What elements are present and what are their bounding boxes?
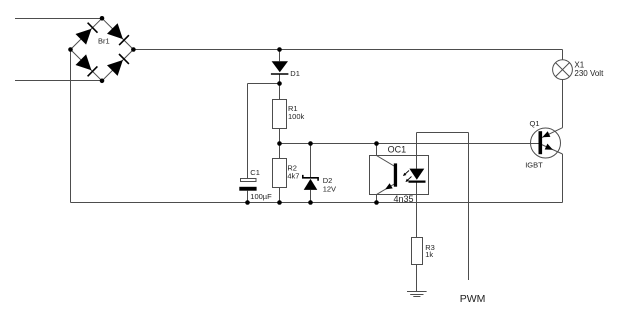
- junction dot R2 rail: [277, 200, 282, 205]
- wire OC1 emitter to rail: [376, 195, 378, 203]
- light arrow heads: [403, 173, 406, 176]
- OC1 LED cathode bar: [409, 181, 426, 183]
- Q1 emitter arrow: [545, 144, 553, 150]
- ground symbol: [407, 291, 427, 293]
- resistor R3 body: [412, 238, 423, 265]
- resistor R1 body: [273, 100, 287, 129]
- diode D1 cathode bar: [271, 73, 289, 75]
- svg-text:C1: C1: [250, 168, 260, 177]
- junction dot D1 top: [277, 47, 282, 52]
- svg-text:4n35: 4n35: [394, 194, 414, 204]
- wire AC input top: [15, 18, 102, 20]
- wire lamp drop: [562, 50, 564, 60]
- bridge diode top-right: [107, 23, 123, 39]
- wire left vertical (bridge minus to bottom rail): [70, 50, 72, 203]
- junction dot bridge right: [131, 47, 136, 52]
- junction dot C1 tee: [277, 81, 282, 86]
- Q1 emitter diagonal: [542, 145, 563, 155]
- light arrow lines: [404, 171, 409, 176]
- wire R2 top: [279, 144, 281, 159]
- svg-text:IGBT: IGBT: [525, 160, 543, 169]
- Q1 base bar: [539, 132, 542, 154]
- Q1 collector diagonal: [542, 128, 563, 138]
- wire R2 bottom to rail: [279, 188, 281, 203]
- svg-text:D1: D1: [290, 69, 300, 78]
- wire LED cathode down to R3: [416, 182, 418, 237]
- svg-text:4k7: 4k7: [287, 171, 299, 180]
- wire C1 vertical top: [247, 84, 249, 179]
- diode D2 zener triangle: [304, 179, 318, 190]
- bridge diode bar bottom-left: [88, 66, 98, 76]
- OC1 phototransistor emitter diagonal: [377, 184, 396, 195]
- bridge diode bar top-right: [119, 35, 129, 45]
- wire D2 bottom to rail: [310, 190, 312, 203]
- transistor Q1 circle: [531, 128, 561, 158]
- junction dot D2 rail: [308, 200, 313, 205]
- OC1 LED triangle: [409, 169, 424, 180]
- capacitor C1 top plate: [241, 179, 257, 182]
- junction dot D2 top: [308, 141, 313, 146]
- resistor R2 body: [273, 159, 287, 188]
- wire R1 bottom to mid node: [279, 129, 281, 144]
- wire AC input bottom: [15, 80, 102, 82]
- wire C1 bottom to rail: [247, 191, 249, 203]
- OC1 phototransistor bar: [394, 164, 396, 186]
- junction dot C1 rail: [245, 200, 250, 205]
- wire D1 to R1: [279, 75, 281, 100]
- diode D2 zener bar: [303, 175, 318, 181]
- bridge rectifier Br1 diamond edges: [71, 18, 134, 81]
- junction dot bridge top: [100, 16, 105, 21]
- optocoupler OC1 package box: [370, 156, 429, 195]
- svg-text:Br1: Br1: [98, 37, 110, 46]
- bridge diode bar bottom-right: [119, 54, 129, 64]
- bridge diode top-left: [76, 29, 92, 45]
- bridge diode bottom-right: [107, 60, 123, 76]
- wire OC1 collector drop: [376, 144, 378, 156]
- wire C1 tee horizontal: [248, 83, 280, 85]
- lamp X1 cross: [556, 63, 570, 77]
- wire emitter to bottom rail: [562, 154, 564, 203]
- diode D1 triangle: [272, 61, 288, 72]
- wire bottom rail: [71, 202, 563, 204]
- svg-text:100k: 100k: [288, 112, 305, 121]
- wire top rail (bridge plus to lamp): [133, 49, 562, 51]
- lamp X1 circle: [553, 60, 573, 80]
- svg-text:Q1: Q1: [530, 119, 540, 128]
- wire PWM vertical: [468, 133, 470, 281]
- svg-text:100µF: 100µF: [250, 192, 272, 201]
- svg-text:12V: 12V: [323, 184, 336, 193]
- wire PWM horizontal: [417, 132, 469, 134]
- junction dot bridge bottom: [100, 79, 105, 84]
- junction dot OC1 emitter rail: [374, 200, 379, 205]
- bridge diode bottom-left: [76, 54, 92, 70]
- wire D1 branch from top rail: [279, 50, 281, 62]
- svg-text:1k: 1k: [425, 250, 433, 259]
- OC1 phototransistor emitter arrow: [385, 183, 393, 189]
- wire D2 top: [310, 144, 312, 178]
- wire R3 bottom to ground: [416, 265, 418, 292]
- wire lamp to collector: [562, 79, 564, 127]
- svg-text:OC1: OC1: [388, 145, 407, 155]
- junction dot bridge left: [68, 47, 73, 52]
- junction dot R1 bottom: [277, 141, 282, 146]
- wire mid rail (base line to Q1): [280, 143, 540, 145]
- wire LED anode up: [416, 133, 418, 169]
- capacitor C1 bottom plate: [239, 187, 256, 191]
- junction dot OC1 collector: [374, 141, 379, 146]
- Q1 collector arrow: [542, 131, 550, 137]
- bridge diode bar top-left: [88, 23, 98, 33]
- OC1 phototransistor collector diagonal: [377, 156, 395, 167]
- svg-text:230 Volt: 230 Volt: [574, 69, 604, 78]
- svg-text:PWM: PWM: [460, 293, 486, 305]
